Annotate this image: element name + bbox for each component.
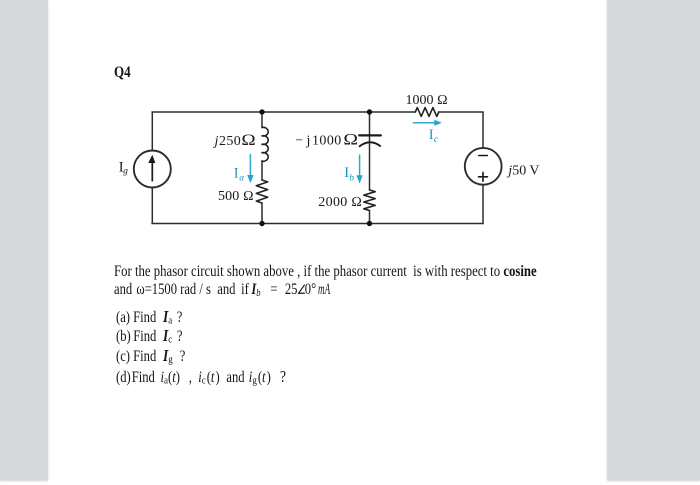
svg-text:c: c — [434, 135, 439, 145]
svg-text:1000: 1000 — [312, 134, 341, 149]
svg-text:j: j — [213, 134, 219, 149]
svg-text:a: a — [239, 174, 244, 184]
svg-text:500 Ω: 500 Ω — [218, 189, 254, 204]
svg-text:b: b — [349, 173, 354, 183]
svg-text:250: 250 — [219, 134, 241, 149]
svg-text:j50 V: j50 V — [506, 164, 539, 179]
svg-text:g: g — [123, 167, 128, 177]
svg-text:Ω: Ω — [343, 132, 358, 149]
svg-text:Ω: Ω — [241, 132, 255, 149]
svg-text:2000 Ω: 2000 Ω — [318, 195, 362, 210]
svg-text:−j: −j — [295, 134, 314, 149]
svg-text:1000 Ω: 1000 Ω — [406, 93, 448, 108]
svg-text:I: I — [234, 165, 239, 181]
